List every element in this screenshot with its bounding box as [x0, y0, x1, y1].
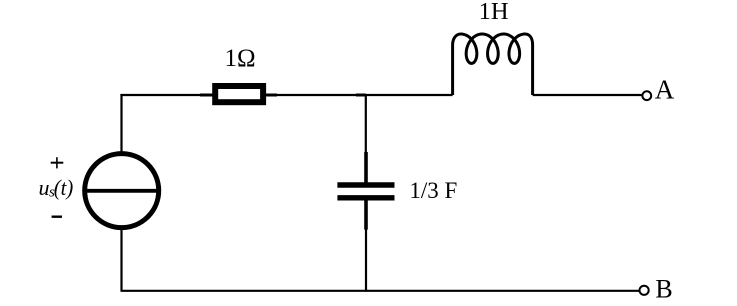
resistor R1 left stub [200, 94, 216, 97]
wire: source bottom vertical [120, 226, 122, 292]
capacitor C1 bottom plate [337, 195, 394, 200]
svg-text:(t): (t) [54, 175, 74, 200]
label minus [52, 215, 62, 217]
svg-text:1/3 F: 1/3 F [409, 178, 457, 203]
wire: source top vertical [120, 94, 122, 155]
svg-text:B: B [655, 275, 672, 304]
svg-text:u: u [39, 175, 50, 200]
terminal B circle [640, 286, 649, 295]
wire: resistor to node junction [277, 94, 366, 96]
wire: junction down to capacitor [365, 94, 367, 153]
source U1 circle [85, 154, 159, 228]
wire: inductor to terminal A [533, 94, 642, 96]
svg-text:A: A [655, 74, 675, 104]
wire: bottom rail [122, 290, 640, 292]
label + [51, 162, 64, 164]
resistor R1 body 1ohm [215, 86, 263, 102]
source U1 mid line [85, 189, 159, 193]
wire: capacitor to bottom rail [365, 229, 367, 291]
svg-text:1H: 1H [479, 0, 509, 25]
wire: top-left horizontal from corner to resistor [122, 95, 201, 96]
svg-text:1Ω: 1Ω [224, 45, 255, 72]
wire: junction to inductor [365, 94, 453, 96]
capacitor C1 bottom lead stub [364, 198, 368, 230]
resistor R1 right stub [263, 94, 278, 97]
junction stub [356, 94, 366, 97]
inductor L1 coil [453, 34, 533, 95]
capacitor C1 top plate [337, 182, 394, 187]
capacitor C1 top lead stub [364, 152, 368, 185]
terminal A circle [642, 91, 651, 100]
